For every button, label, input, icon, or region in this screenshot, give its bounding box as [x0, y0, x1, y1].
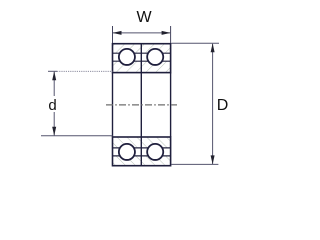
raceway line bottom section upper — [113, 147, 171, 149]
hatch inner band bottom section — [113, 137, 171, 148]
middle vertical line bottom section — [140, 137, 142, 166]
ball bottom-right — [147, 144, 163, 160]
d arrowhead bottom — [52, 127, 56, 136]
d dimension line lower segment — [53, 112, 55, 135]
W dimension line — [113, 32, 170, 34]
W extension line left — [112, 26, 114, 43]
left bore edge wire between sections — [112, 73, 114, 137]
W arrowhead left — [113, 31, 122, 35]
d arrowhead top — [52, 71, 56, 80]
svg-text:D: D — [217, 97, 229, 114]
raceway line top section upper — [113, 52, 171, 54]
d extension line top — [48, 70, 57, 72]
ball top-right — [147, 49, 163, 65]
middle vertical line top section — [140, 44, 142, 73]
D arrowhead top — [211, 43, 215, 52]
hatch inner band top section — [113, 61, 171, 72]
bottom section outline rect — [113, 137, 171, 166]
right bore edge wire between sections — [170, 73, 172, 137]
D extension line bottom — [172, 163, 219, 165]
d extension line top dashed part — [57, 70, 113, 72]
svg-text:W: W — [136, 9, 152, 26]
d dimension line upper segment — [53, 72, 55, 96]
centerline dash-dot — [106, 104, 177, 106]
ball bottom-left — [119, 144, 135, 160]
hatch outer band top section — [113, 44, 171, 54]
D dimension line — [212, 44, 214, 164]
top section outline rect — [113, 44, 171, 73]
ball top-left — [119, 49, 135, 65]
raceway line top section lower — [113, 60, 171, 62]
middle joint wire between sections — [140, 73, 142, 137]
raceway line bottom section lower — [113, 155, 171, 157]
svg-text:d: d — [48, 97, 56, 114]
D arrowhead bottom — [211, 155, 215, 164]
hatch outer band bottom section — [113, 156, 171, 166]
d extension line bottom — [41, 135, 113, 137]
W extension line right — [170, 26, 172, 43]
D extension line top — [172, 42, 220, 44]
W arrowhead right — [162, 31, 171, 35]
